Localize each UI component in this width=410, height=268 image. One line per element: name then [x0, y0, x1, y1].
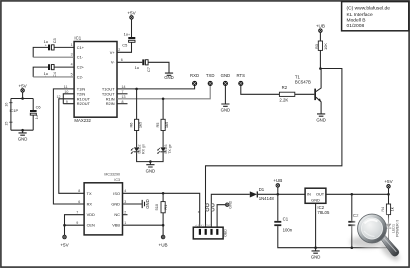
svg-text:2.2K: 2.2K	[279, 98, 288, 103]
wire +5V to C5	[131, 19, 133, 37]
svg-text:510: 510	[154, 203, 159, 210]
svg-text:7: 7	[76, 211, 78, 215]
wire R6 branch	[136, 89, 138, 119]
svg-text:2: 2	[118, 48, 120, 52]
wire C6 bottom + bottom rail	[11, 115, 33, 130]
wire C6 branch top	[32, 99, 34, 111]
pin number labels IC1 right	[118, 48, 125, 104]
wire R1OUT down-left (to IC3 TX)	[59, 99, 84, 194]
wire D1 to +UB node	[258, 193, 305, 195]
svg-text:V+: V+	[110, 50, 116, 55]
pin number labels IC3 left	[76, 189, 80, 225]
svg-text:BC547B: BC547B	[295, 80, 311, 85]
wire +UB to R3	[319, 33, 321, 42]
wire R3 to collector node	[319, 50, 321, 68]
R2IN stub pin8	[117, 103, 128, 105]
resistor R1	[154, 202, 168, 213]
wire LED1 to gnd bus	[388, 229, 390, 248]
resistor R3	[314, 41, 328, 50]
svg-text:100n: 100n	[283, 228, 293, 233]
+UB supply pad above R3	[316, 23, 325, 32]
svg-text:GND: GND	[221, 108, 231, 113]
svg-text:GND: GND	[111, 202, 120, 207]
svg-text:GND: GND	[316, 118, 326, 123]
ground (main bus)	[311, 248, 321, 260]
svg-text:RTS: RTS	[237, 73, 246, 78]
svg-text:12: 12	[57, 95, 61, 99]
wire +5V pad to rail	[22, 92, 24, 98]
svg-text:+UB: +UB	[159, 242, 168, 247]
svg-text:+5V: +5V	[18, 83, 27, 88]
svg-text:GND: GND	[311, 255, 321, 260]
svg-text:1k5: 1k5	[138, 122, 143, 128]
wire IC2 GND down	[315, 203, 317, 247]
wire R1IN to TXD pad	[117, 85, 210, 99]
svg-text:1k5: 1k5	[164, 122, 169, 128]
svg-text:RX gn: RX gn	[141, 144, 145, 154]
node +5V rail junction	[387, 193, 390, 196]
wire R5 to LED3	[162, 131, 164, 148]
svg-text:6: 6	[121, 58, 123, 62]
svg-text:+: +	[45, 43, 47, 47]
svg-text:IC1: IC1	[74, 36, 81, 41]
T2IN/R2OUT loopback wire	[63, 94, 74, 104]
node +UB/C1 junction	[277, 193, 280, 196]
connector X1 OBD	[193, 223, 227, 239]
wire C2+ loop top	[54, 66, 74, 68]
wire C2 branch	[351, 194, 353, 221]
svg-text:IN: IN	[307, 192, 311, 197]
wire IC3 GND pin	[123, 203, 142, 205]
svg-text:1N4148: 1N4148	[259, 196, 275, 201]
pad TXD	[206, 73, 215, 85]
capacitor C7	[135, 59, 152, 72]
wire L-line collector to connector	[206, 69, 342, 228]
diode D1 1N4148	[250, 187, 275, 201]
svg-text:MC33290: MC33290	[104, 172, 120, 176]
wire C2 loop left/bottom	[33, 67, 48, 77]
svg-text:GND: GND	[164, 75, 174, 80]
node LED gnd junction	[149, 160, 152, 163]
svg-text:NC: NC	[114, 212, 120, 217]
node VDD/CEN junction	[63, 224, 66, 227]
voltage regulator IC2 78L05	[305, 188, 330, 215]
svg-text:C1-: C1-	[77, 55, 84, 60]
+UB supply pad (regulator input)	[273, 178, 282, 194]
svg-text:IC1P: IC1P	[10, 108, 19, 113]
svg-text:C7: C7	[146, 67, 151, 72]
ground (IC3, rotated)	[142, 199, 150, 209]
+5V supply pad (IC1P)	[18, 83, 27, 92]
svg-text:R3: R3	[314, 44, 319, 49]
capacitor C5	[122, 31, 135, 47]
wire C1 loop left/bottom	[33, 47, 48, 57]
wire VBB to +UB	[123, 225, 164, 235]
svg-text:1: 1	[71, 43, 73, 47]
svg-text:TXD: TXD	[206, 73, 215, 78]
capacitor C4	[44, 64, 57, 79]
wire C7 to gnd	[148, 62, 169, 73]
svg-text:x: x	[198, 210, 200, 214]
capacitor C2	[348, 213, 359, 226]
svg-text:1k: 1k	[389, 207, 394, 211]
svg-text:RX: RX	[87, 202, 93, 207]
svg-text:16: 16	[5, 103, 9, 107]
svg-text:6: 6	[78, 200, 80, 204]
resistor R2	[279, 85, 294, 103]
capacitor C6	[30, 104, 41, 119]
pad RXD	[190, 73, 199, 85]
svg-text:ISO: ISO	[113, 191, 120, 196]
svg-text:R2OUT: R2OUT	[77, 101, 91, 106]
wire T1OUT to RXD pad	[117, 85, 195, 89]
svg-text:Modell B: Modell B	[347, 18, 366, 24]
ground (V- cap)	[164, 73, 174, 80]
svg-text:R2IN: R2IN	[106, 101, 115, 106]
node IC1P bottom junction	[21, 129, 24, 132]
wire VDD/CEN to +5V	[65, 215, 85, 235]
svg-text:9: 9	[76, 221, 78, 225]
svg-text:1: 1	[124, 221, 126, 225]
node IC1P top junction	[21, 97, 24, 100]
ground (LEDs)	[146, 162, 156, 174]
node R1IN/R5 junction	[162, 98, 165, 101]
svg-text:(C) www.blafusel.de: (C) www.blafusel.de	[347, 6, 391, 12]
svg-text:C5: C5	[122, 43, 127, 48]
+5V supply pad above C5	[127, 10, 136, 19]
LED LED1 (POWER)	[383, 220, 400, 237]
svg-text:TX: TX	[87, 191, 92, 196]
NC stub	[123, 214, 128, 216]
wire C1 branch	[277, 194, 279, 221]
pin number labels IC1 left	[57, 43, 73, 104]
pad GND	[221, 73, 231, 85]
node T1OUT/R6 junction	[135, 88, 138, 91]
svg-text:1u: 1u	[135, 65, 139, 70]
pad K/L test points	[198, 204, 214, 215]
svg-text:IC3: IC3	[114, 178, 120, 182]
IC3 MC33290 body	[84, 172, 122, 235]
wire C5 to V+ pin2	[117, 42, 132, 52]
svg-text:C6: C6	[36, 104, 41, 109]
svg-text:GND: GND	[311, 198, 320, 203]
wire C1+ loop top	[54, 46, 74, 48]
svg-text:78L05: 78L05	[317, 210, 330, 215]
wire R5 branch	[162, 99, 164, 120]
svg-text:+UB: +UB	[316, 23, 325, 28]
+5V supply pad (regulator out)	[384, 179, 393, 194]
svg-text:+5V: +5V	[60, 242, 69, 247]
svg-text:VBB: VBB	[112, 223, 120, 228]
svg-text:C2-: C2-	[77, 74, 84, 79]
node VBB junction	[162, 224, 165, 227]
wire +5V to R4	[388, 194, 390, 204]
magnifier icon	[350, 209, 405, 265]
resistor R6	[128, 119, 142, 130]
wire GND pad down	[224, 85, 226, 103]
wire GND pin to gnd pad	[217, 205, 226, 228]
wire ISO line	[123, 193, 200, 227]
+UB supply pad (VBB)	[159, 235, 168, 247]
wire R4 to LED1	[388, 215, 390, 224]
resistor R4	[380, 204, 394, 215]
wire T1IN down-left (to IC3 RX)	[53, 89, 84, 204]
svg-text:+5V: +5V	[127, 10, 136, 15]
svg-text:MAX232: MAX232	[74, 118, 91, 123]
node C2 top junction	[351, 193, 354, 196]
svg-text:C4: C4	[52, 71, 57, 77]
svg-text:+UB K L GND: +UB K L GND	[195, 223, 211, 227]
LED D2 (RX)	[131, 144, 145, 154]
wire ISO to R1	[162, 193, 164, 201]
capacitor C3	[44, 38, 57, 50]
LED D3 (TX)	[157, 144, 171, 154]
svg-text:01/2008: 01/2008	[347, 23, 365, 29]
svg-text:1u: 1u	[35, 115, 39, 119]
T2OUT stub pin7	[117, 93, 128, 95]
wire IC1P top rail	[11, 98, 33, 100]
svg-text:GND: GND	[146, 168, 156, 173]
wire RTS to R2	[241, 85, 280, 94]
wire R6 to LED2	[136, 131, 138, 148]
svg-text:R5: R5	[155, 123, 160, 128]
node IC2 gnd junction	[314, 246, 317, 249]
power pins IC1P	[5, 99, 19, 131]
svg-text:GND: GND	[228, 200, 232, 208]
svg-text:VDD: VDD	[87, 212, 95, 217]
svg-text:CEN: CEN	[87, 223, 95, 228]
transistor T1 BC547B	[295, 69, 321, 114]
svg-text:RXD: RXD	[190, 73, 199, 78]
svg-text:+UB: +UB	[273, 178, 282, 183]
svg-text:2: 2	[124, 211, 126, 215]
svg-text:+: +	[128, 33, 130, 37]
svg-text:8: 8	[78, 189, 80, 193]
ground (T1 emitter)	[316, 114, 326, 123]
ground (IC1P)	[18, 130, 28, 141]
svg-text:C1+: C1+	[77, 45, 85, 50]
svg-text:TX ge: TX ge	[168, 144, 172, 154]
pad RTS	[237, 73, 246, 85]
node ISO/R1 junction	[162, 192, 165, 195]
svg-text:GND: GND	[221, 73, 231, 78]
svg-text:+5V: +5V	[384, 179, 393, 184]
svg-text:GND: GND	[145, 199, 150, 209]
svg-text:C3: C3	[52, 38, 57, 43]
+5V supply pad (IC3)	[60, 235, 69, 247]
wire C1 to gnd bus	[278, 226, 389, 248]
wire +UB pin up to D1 line	[211, 194, 250, 227]
svg-text:D1: D1	[259, 187, 265, 192]
wire V- pin6 to C7	[117, 61, 142, 63]
svg-text:OUT: OUT	[316, 192, 325, 197]
svg-text:15: 15	[5, 122, 9, 126]
pad GND test point	[226, 200, 233, 208]
svg-text:4: 4	[124, 189, 126, 193]
svg-text:C1: C1	[283, 217, 289, 222]
svg-text:4: 4	[71, 63, 73, 67]
svg-text:KL Interface: KL Interface	[347, 12, 373, 18]
svg-text:5: 5	[71, 72, 73, 76]
svg-text:R1: R1	[163, 205, 168, 210]
resistor R5	[155, 119, 169, 130]
pin number labels IC3 right	[124, 189, 126, 225]
svg-text:GND: GND	[18, 137, 28, 142]
wire C2 to gnd bus	[351, 226, 353, 248]
svg-text:3: 3	[71, 53, 73, 57]
wire R1 to VBB rail	[162, 213, 164, 225]
svg-text:3: 3	[124, 200, 126, 204]
node C2 gnd junction	[351, 246, 354, 249]
capacitor C1 100n	[274, 217, 292, 233]
wire R2 to base	[295, 93, 315, 95]
svg-text:C2+: C2+	[77, 65, 85, 70]
title box	[342, 2, 409, 31]
svg-text:R6: R6	[128, 123, 133, 128]
IC U1 (IC1 MAX232) body	[74, 36, 117, 123]
svg-text:R2: R2	[282, 85, 288, 90]
wire LEDs to gnd bus	[137, 152, 164, 161]
svg-text:OBD: OBD	[224, 229, 228, 237]
svg-text:10K: 10K	[323, 43, 328, 50]
wire IC2 OUT +5V rail	[326, 193, 389, 195]
node collector junction	[319, 67, 322, 70]
svg-text:POWER rt: POWER rt	[396, 220, 400, 237]
ground (pad GND)	[221, 104, 231, 113]
svg-text:11: 11	[64, 85, 68, 89]
